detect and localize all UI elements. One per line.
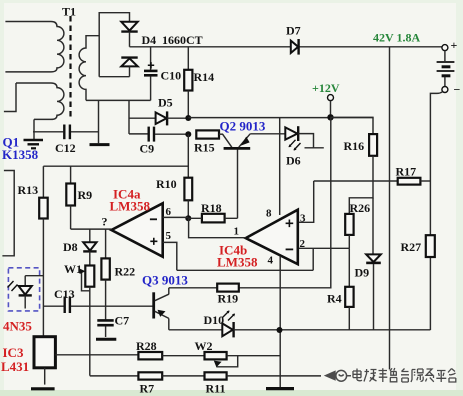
resistor R10: [184, 134, 192, 218]
svg-text:R26: R26: [350, 201, 371, 215]
ground (bar) under secondary return: [90, 143, 110, 146]
wire IC4a output row: [71, 228, 112, 230]
wire long vertical from 42V rail: [389, 47, 391, 370]
wire battery minus to right column: [430, 92, 442, 330]
node junction C9/R15: [185, 131, 191, 137]
resistor R14: [184, 47, 192, 118]
capacitor C9: [129, 127, 188, 142]
capacitor C10: [144, 47, 158, 101]
svg-text:R14: R14: [194, 70, 215, 84]
wire 42V top rail: [130, 46, 292, 48]
svg-text:?: ?: [102, 215, 108, 229]
wire IC4a pin5 row: [177, 269, 313, 271]
svg-text:D5: D5: [158, 96, 173, 110]
resistor R9: [66, 166, 75, 229]
wire R10 node to IC4b output: [189, 218, 246, 237]
diode D4 lower half: [121, 58, 137, 77]
LED D6: [285, 126, 324, 150]
resistor R27: [426, 235, 435, 257]
resistor R26: [345, 214, 353, 248]
svg-text:R4: R4: [327, 292, 342, 306]
svg-text:5: 5: [166, 230, 172, 242]
wire +12V down to R19 row: [239, 117, 331, 287]
svg-text:−: −: [454, 83, 461, 97]
diode D5: [129, 111, 188, 125]
svg-text:C9: C9: [140, 142, 155, 156]
transformer T1 core (dashed line): [69, 16, 71, 118]
ground (bar) bottom center: [266, 387, 294, 390]
svg-text:IC3: IC3: [3, 345, 24, 360]
svg-text:R10: R10: [156, 177, 177, 191]
op-amp IC4a: [111, 203, 162, 256]
svg-text:LM358: LM358: [217, 255, 258, 270]
diode D4 upper half (common-cathode): [121, 22, 137, 47]
svg-text:R9: R9: [78, 188, 93, 202]
watermark text (CJK strokes): [353, 368, 456, 382]
diode D8: [83, 229, 96, 265]
rectifier loop left/top: [99, 13, 129, 77]
+12V terminal: [328, 95, 334, 115]
svg-text:4N35: 4N35: [3, 319, 32, 334]
wire pin2 to pin5 link: [312, 248, 314, 270]
wire pin6 to node: [163, 216, 189, 218]
wire left stub hook: [2, 171, 14, 256]
capacitor C7: [97, 306, 113, 337]
svg-text:1: 1: [234, 226, 240, 238]
node D10 / ground column: [277, 327, 283, 333]
svg-text:C12: C12: [55, 141, 76, 155]
watermark logo: [324, 370, 351, 381]
wire IC4b pin4 ground column: [279, 256, 281, 387]
resistor R16: [331, 117, 378, 214]
battery - terminal: [442, 83, 461, 97]
ground (bar) under C7: [96, 338, 116, 341]
svg-text:D7: D7: [286, 24, 301, 38]
svg-text:4: 4: [268, 255, 274, 267]
svg-text:R11: R11: [206, 382, 226, 396]
svg-text:W2: W2: [195, 339, 213, 353]
diode D7: [291, 39, 299, 55]
svg-text:L431: L431: [1, 359, 29, 374]
trimmer W1: [80, 266, 95, 376]
svg-text:R28: R28: [136, 339, 157, 353]
svg-text:C13: C13: [54, 287, 75, 301]
resistor R19: [169, 284, 239, 292]
wire down to C12 line / ground: [98, 100, 100, 143]
resistor R28: [138, 352, 204, 359]
svg-text:+: +: [451, 38, 458, 52]
svg-text:D8: D8: [63, 240, 78, 254]
svg-text:R15: R15: [194, 141, 215, 155]
svg-text:R19: R19: [218, 292, 239, 306]
svg-text:R13: R13: [18, 183, 39, 197]
resistor R13: [39, 166, 48, 337]
transistor Q3 9013: [154, 288, 169, 330]
svg-text:K1358: K1358: [2, 147, 39, 162]
capacitor C12: [33, 125, 99, 140]
svg-text:R18: R18: [201, 201, 222, 215]
svg-text:R16: R16: [344, 139, 365, 153]
resistor R15: [196, 130, 223, 138]
transistor Q2 9013: [223, 134, 286, 219]
svg-text:42V 1.8A: 42V 1.8A: [373, 31, 420, 45]
resistor R4: [345, 248, 353, 330]
wire +12V rail: [188, 117, 373, 119]
transformer T1 primary winding 1: [5, 22, 63, 72]
svg-text:R22: R22: [115, 265, 136, 279]
wire IC4b pin8 supply: [279, 118, 281, 215]
node +12V / rail: [327, 114, 333, 120]
rectifier loop bottom: [99, 76, 129, 78]
node R10/R18/pin6: [185, 215, 191, 221]
battery + terminal: [442, 38, 458, 52]
diode D9: [366, 198, 381, 330]
svg-text:D4: D4: [142, 33, 157, 47]
svg-text:LM358: LM358: [110, 199, 151, 214]
wire primary2 left lead: [4, 83, 16, 112]
ground (bar) under IC3: [31, 387, 55, 390]
svg-text:R7: R7: [140, 382, 155, 396]
svg-text:C10: C10: [161, 69, 182, 83]
optocoupler LED: [8, 276, 44, 309]
wire primary2 bottom lead: [33, 119, 35, 139]
trimmer W2: [205, 352, 281, 367]
wire pin2 to R26/R4: [299, 247, 349, 249]
resistor R22: [101, 229, 109, 306]
transformer T1 primary winding 2: [16, 83, 64, 119]
svg-text:1660CT: 1660CT: [162, 33, 203, 47]
svg-text:R17: R17: [396, 165, 417, 179]
wire pin5 down: [163, 242, 177, 270]
svg-text:Q3 9013: Q3 9013: [142, 273, 188, 288]
svg-text:Q2 9013: Q2 9013: [220, 119, 266, 134]
optocoupler 4N35 (dashed box): [8, 268, 39, 311]
svg-text:D9: D9: [355, 266, 370, 280]
svg-text:D10: D10: [204, 313, 225, 327]
svg-text:R27: R27: [401, 240, 422, 254]
wire rectifier to D5/C9 column: [128, 100, 130, 133]
svg-text:8: 8: [266, 208, 272, 220]
svg-text:T1: T1: [62, 5, 76, 19]
resistor R7: [90, 372, 205, 379]
resistor R18: [188, 214, 237, 223]
resistor R17: [314, 178, 431, 185]
svg-text:D6: D6: [286, 154, 301, 168]
ground (3-bar) under primary2: [24, 140, 44, 148]
svg-text:W1: W1: [64, 262, 82, 276]
wire secondary bottom to C10: [86, 99, 151, 101]
op-amp IC4b: [246, 210, 298, 265]
wire pin3 to R17: [299, 181, 314, 222]
node junction D5/rail: [185, 115, 191, 121]
svg-text:+12V: +12V: [312, 81, 340, 95]
LED D10: [169, 311, 431, 338]
svg-text:C7: C7: [115, 314, 130, 328]
svg-text:6: 6: [166, 206, 172, 218]
transformer T1 secondary winding: [79, 36, 99, 101]
battery cells: [437, 51, 455, 87]
resistor R11: [205, 372, 322, 379]
IC3 L431: [34, 337, 138, 385]
wire R13/R9 top row: [43, 165, 188, 167]
capacitor C13: [43, 297, 153, 314]
